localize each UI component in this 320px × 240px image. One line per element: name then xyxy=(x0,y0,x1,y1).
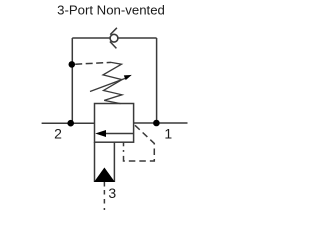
spring adjust arrow xyxy=(90,75,132,92)
flow arrow inside box xyxy=(95,130,133,137)
svg-text:1: 1 xyxy=(164,126,172,142)
check valve CV1 seat lines xyxy=(110,28,117,49)
pilot dashed line to spring xyxy=(75,62,111,64)
port 3 line below triangle xyxy=(103,182,105,187)
wire outer loop top horizontal xyxy=(72,37,156,39)
wire outer loop left vertical xyxy=(71,38,73,123)
svg-text:2: 2 xyxy=(54,126,62,142)
wire outer loop right vertical xyxy=(156,38,158,123)
node junction port 1 xyxy=(153,120,160,127)
port 3 stub walls xyxy=(95,142,115,182)
svg-text:3-Port Non-vented: 3-Port Non-vented xyxy=(57,3,165,18)
pilot stub from box bottom xyxy=(123,142,125,146)
node junction on left vertical xyxy=(69,61,76,68)
valve body box U1 xyxy=(95,104,134,143)
wire port 1 horizontal xyxy=(134,122,188,124)
pilot dashed path right xyxy=(124,125,155,161)
port 3 flow triangle xyxy=(94,168,115,183)
wire port 2 horizontal xyxy=(42,122,95,124)
svg-text:3: 3 xyxy=(108,185,116,201)
port 3 dashed line xyxy=(103,190,105,210)
node junction port 2 xyxy=(67,120,74,127)
spring xyxy=(103,62,122,103)
check valve CV1 ball xyxy=(110,34,118,42)
